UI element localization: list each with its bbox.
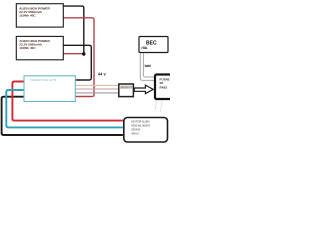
svg-text:S5: S5 — [160, 81, 164, 85]
svg-text:BEC: BEC — [146, 41, 157, 47]
svg-text:44 v: 44 v — [98, 71, 107, 76]
svg-text:4030-BL 500KV: 4030-BL 500KV — [131, 124, 150, 128]
svg-text:110Wh 40C: 110Wh 40C — [19, 13, 36, 17]
svg-text:JR conn: JR conn — [120, 87, 128, 89]
svg-text:batt: batt — [145, 64, 152, 68]
svg-text:PHOENIX ICE2 HV 85: PHOENIX ICE2 HV 85 — [30, 78, 57, 82]
svg-text:MOTOR ALIEN: MOTOR ALIEN — [131, 120, 149, 124]
svg-text:RX02: RX02 — [160, 85, 168, 89]
svg-text:110Wh 40C: 110Wh 40C — [19, 46, 36, 50]
svg-text:400LV: 400LV — [131, 132, 139, 136]
svg-text:>5A: >5A — [141, 46, 148, 50]
svg-text:530KW: 530KW — [131, 128, 140, 132]
